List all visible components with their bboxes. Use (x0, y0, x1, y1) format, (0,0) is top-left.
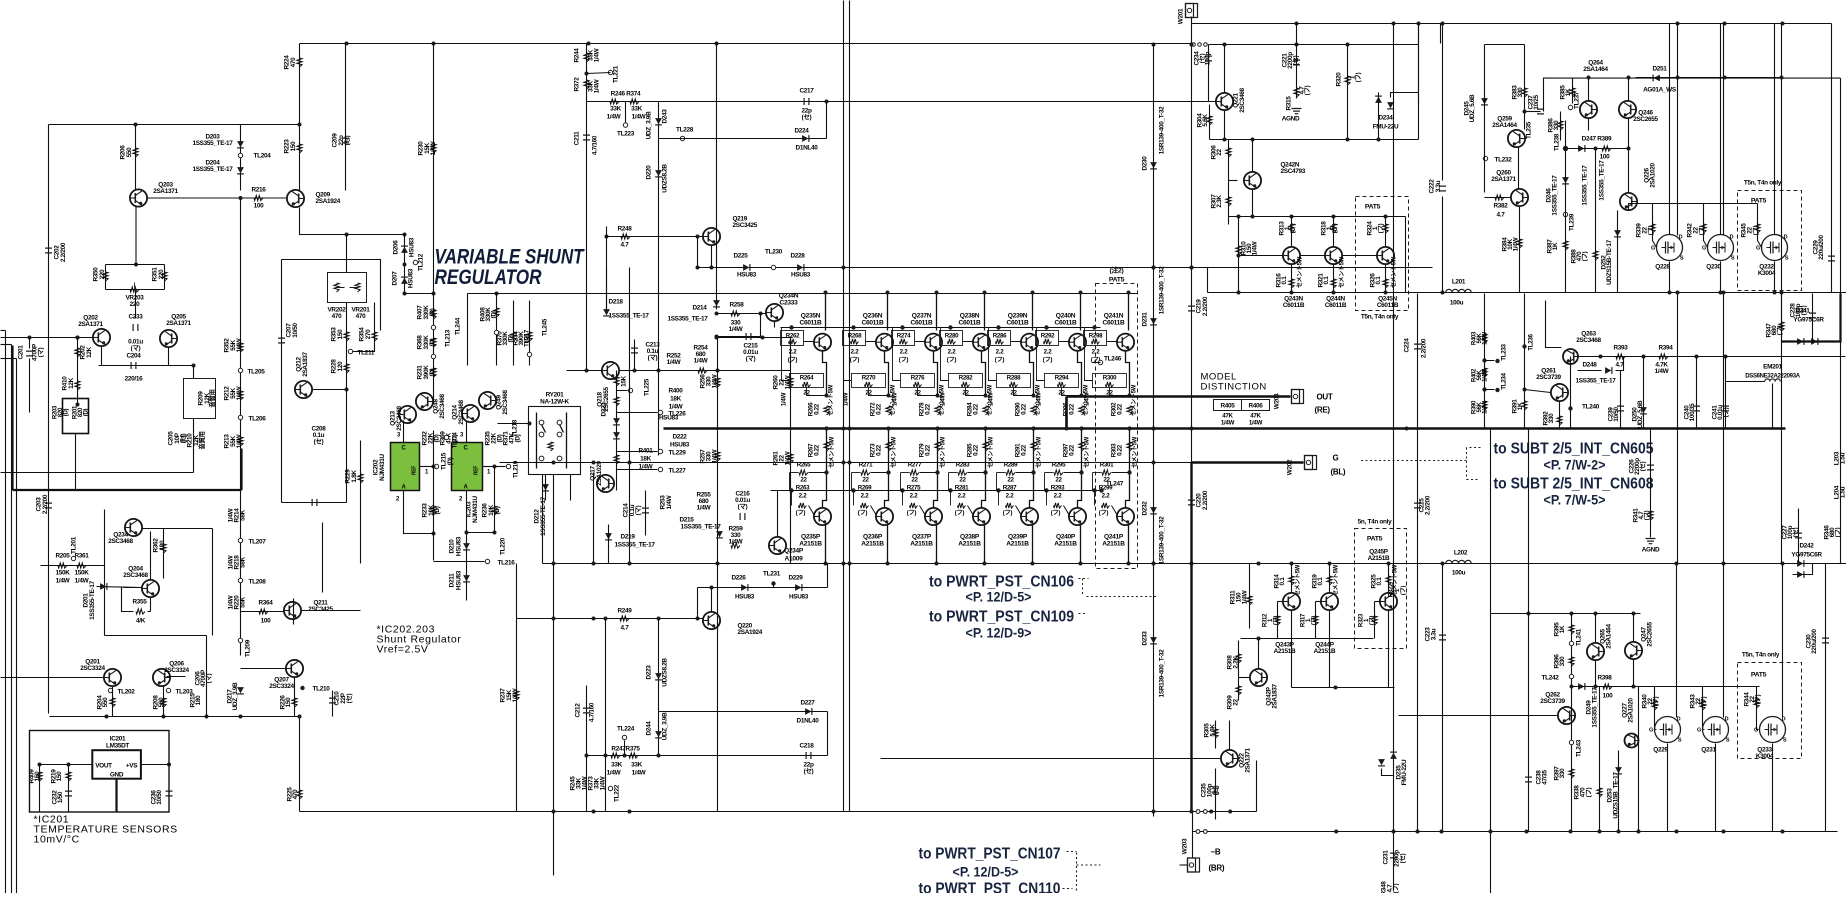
resistor R342z (1701, 224, 1706, 233)
diode D229 (795, 584, 801, 591)
svg-text:D215: D215 (679, 517, 694, 524)
resistor R385 (1570, 88, 1575, 97)
transistor Q205 (160, 330, 177, 347)
resistor R246 (610, 99, 619, 104)
wire v1524 (1524, 45, 1526, 130)
wire rail A corner (1256, 761, 1258, 812)
capacitor C219 (1188, 306, 1195, 311)
svg-text:C218: C218 (799, 743, 814, 750)
wire V x586 (586, 44, 588, 102)
transistor Q240N (1080, 293, 1082, 331)
svg-text:1SS355_TE-17: 1SS355_TE-17 (192, 166, 233, 173)
wire C210 col (332, 691, 334, 717)
svg-text:D232: D232 (1142, 501, 1149, 516)
diode D250z (1640, 407, 1647, 413)
diode D207 (401, 278, 408, 284)
wire H y293 (405, 293, 434, 295)
pin TL241 (1569, 641, 1573, 645)
svg-text:22: 22 (862, 477, 869, 484)
svg-text:D221: D221 (601, 402, 608, 417)
svg-text:D206: D206 (393, 240, 400, 255)
wire c213 col (634, 340, 636, 371)
dashed box PAT5 center (1096, 284, 1138, 569)
svg-text:1SS355_TE-17: 1SS355_TE-17 (615, 542, 656, 549)
wire C217 drop (826, 102, 828, 139)
svg-text:TL213: TL213 (445, 329, 452, 347)
svg-text:2SA1837: 2SA1837 (1272, 683, 1279, 708)
wire R249 row (517, 618, 703, 620)
svg-text:TL234: TL234 (1501, 372, 1508, 389)
mosfet Q233 (1760, 717, 1786, 743)
svg-text:D244: D244 (646, 721, 653, 736)
svg-text:(フ): (フ) (858, 510, 868, 517)
node x135 y124 (134, 123, 138, 127)
wire emit bus (50, 716, 300, 718)
transistor Q260 (1511, 189, 1528, 206)
resistor R316z (1289, 279, 1294, 288)
transistor Q227b (1625, 734, 1639, 748)
svg-text:1/4W: 1/4W (600, 775, 607, 790)
svg-text:(BL): (BL) (1331, 468, 1346, 477)
wire R310 col (1238, 217, 1240, 293)
svg-text:R244: R244 (574, 48, 581, 63)
svg-text:22: 22 (959, 477, 966, 484)
node R290 bus (1032, 427, 1036, 431)
svg-text:TL223: TL223 (617, 131, 635, 138)
wire AGND col (1650, 429, 1652, 538)
wire Q202 base (1, 337, 93, 339)
svg-text:セメント5W: セメント5W (1297, 256, 1304, 288)
wire C208 row (282, 502, 347, 504)
diode pair D241 (1797, 338, 1803, 345)
wire Q242N base (1229, 180, 1238, 182)
svg-text:GND: GND (110, 772, 124, 779)
wire v1831 (1831, 24, 1833, 293)
svg-text:C6011B: C6011B (1054, 320, 1077, 327)
node R302 bus (1128, 427, 1132, 431)
wire TL223 stub (625, 102, 627, 123)
IC202 green box (391, 443, 420, 491)
diode pair D235 (1390, 753, 1397, 759)
wire q265 emit (1595, 661, 1597, 687)
svg-text:1/4W: 1/4W (892, 392, 899, 406)
svg-text:1K: 1K (1565, 88, 1572, 96)
wire q231 s (1715, 744, 1717, 832)
svg-text:TL241: TL241 (1576, 628, 1583, 646)
wire V x240 ladder (240, 198, 242, 461)
svg-text:C6011B: C6011B (1377, 302, 1399, 309)
svg-text:D223: D223 (646, 665, 653, 680)
wire gq229 (1655, 687, 1657, 730)
wire h635 (105, 635, 207, 637)
svg-text:K3004: K3004 (1758, 270, 1776, 277)
wire D251 row (1636, 77, 1782, 79)
resistor R308z (1236, 654, 1241, 663)
resistor R230 (431, 144, 436, 153)
transistor Q245P (1380, 593, 1397, 610)
svg-text:1/4W: 1/4W (607, 114, 622, 121)
wire v1677b (1677, 293, 1679, 564)
transistor Q244P (1321, 593, 1338, 610)
resistor R266 (824, 406, 829, 415)
transistor Q241P (1128, 526, 1130, 564)
svg-text:1SS355-TE-17: 1SS355-TE-17 (89, 580, 96, 619)
svg-text:C6011B: C6011B (861, 320, 884, 327)
transistor Q242P (1250, 669, 1267, 686)
svg-text:セメント5W: セメント5W (829, 436, 836, 468)
nodes x404 (403, 263, 407, 267)
svg-text:OUT: OUT (1317, 393, 1333, 402)
wire v717 upper (717, 338, 719, 429)
svg-text:(マ): (マ) (37, 347, 45, 357)
resistor R362zz (161, 544, 166, 553)
wire Q204 emit (150, 598, 152, 612)
resistor R347zz (1779, 322, 1784, 331)
capacitor C234 (1205, 56, 1212, 61)
wire v1677 (1677, 24, 1679, 236)
svg-text:TL209: TL209 (245, 639, 252, 657)
transistor Q222 (1221, 750, 1238, 767)
dashed box PAT5 mosfet top (1738, 191, 1802, 291)
svg-text:D233: D233 (1142, 631, 1149, 646)
svg-text:セメント5W: セメント5W (1295, 564, 1302, 596)
wire rail43 ext right (1209, 44, 1419, 46)
transistor Q236P (887, 526, 889, 564)
svg-text:D227: D227 (800, 700, 815, 707)
wire R386 col (1560, 112, 1562, 141)
wire Q222 col (1229, 721, 1231, 750)
capacitor C236 (166, 791, 173, 796)
svg-text:音質用: 音質用 (208, 389, 217, 407)
svg-text:33K: 33K (631, 762, 643, 769)
svg-text:0.1: 0.1 (1279, 577, 1286, 586)
resistor R375 (629, 753, 638, 758)
diode D219 (605, 533, 612, 539)
svg-text:W203: W203 (1182, 838, 1189, 854)
resistor R267 (824, 442, 829, 451)
pin TL212 (413, 260, 417, 264)
svg-text:22: 22 (800, 477, 807, 484)
wire V x105 (105, 265, 107, 290)
resistor R324 (1383, 224, 1388, 233)
resistor R397z (1569, 769, 1574, 778)
wire D234 stub (1378, 93, 1380, 140)
svg-text:0.22: 0.22 (814, 403, 821, 415)
resistor R341 (1648, 511, 1653, 520)
diode D204 (237, 167, 244, 173)
wire Q232 src (1774, 262, 1776, 293)
wire q233 d (1782, 564, 1784, 718)
svg-text:D228: D228 (790, 253, 805, 260)
wire V x404 (404, 235, 406, 294)
wire v658 col (658, 619, 660, 756)
svg-text:TL231: TL231 (763, 571, 781, 578)
node x1153 y267 (1152, 266, 1156, 270)
svg-text:1/4W: 1/4W (75, 578, 90, 585)
svg-text:2SA1837: 2SA1837 (302, 351, 309, 376)
wire R248 row (607, 236, 703, 238)
transistor Q237P (936, 526, 938, 564)
svg-text:(マ): (マ) (738, 503, 748, 511)
diode D226 (741, 584, 747, 591)
svg-text:2.2: 2.2 (851, 349, 860, 356)
svg-text:47/35: 47/35 (1542, 770, 1549, 785)
svg-text:Q234P: Q234P (784, 548, 804, 555)
svg-text:<P. 12/D-5>: <P. 12/D-5> (953, 864, 1019, 880)
svg-text:R269: R269 (858, 485, 872, 492)
IC203 green box (452, 443, 483, 491)
svg-text:R286: R286 (993, 333, 1007, 340)
capacitor C202 (45, 248, 52, 253)
dot ladder top (495, 292, 499, 296)
resistor R310 (1236, 246, 1241, 255)
svg-text:470: 470 (290, 57, 297, 68)
wire Q202 emitter (101, 347, 103, 366)
svg-text:47K: 47K (1222, 413, 1233, 420)
capacitor C216 (740, 513, 745, 520)
wire Q246 emit (1628, 119, 1630, 193)
resistor R273 (886, 442, 891, 451)
svg-text:UDZ_3.9B: UDZ_3.9B (232, 682, 239, 710)
pin TL226 (658, 410, 662, 414)
svg-text:D241: D241 (1795, 308, 1810, 315)
pin TL203 (166, 688, 170, 692)
svg-text:2SC3468: 2SC3468 (396, 405, 403, 430)
wire tl216 row (434, 561, 485, 563)
svg-text:1/4W: 1/4W (1249, 420, 1263, 427)
svg-text:2.2: 2.2 (1054, 493, 1063, 500)
svg-text:TL220: TL220 (500, 537, 507, 555)
svg-text:G: G (1702, 246, 1706, 252)
diode D217z (237, 687, 244, 693)
svg-text:2SC3425: 2SC3425 (733, 222, 758, 229)
wire Q206 base (167, 676, 186, 678)
wire thick bus y428 (664, 427, 1786, 429)
resistor R249 (620, 616, 629, 621)
svg-text:1K: 1K (1552, 242, 1559, 250)
svg-text:Q235N: Q235N (801, 313, 821, 320)
svg-text:R268: R268 (848, 333, 862, 340)
capacitor C204 (131, 362, 136, 369)
svg-text:1SS355_TE-17: 1SS355_TE-17 (667, 316, 708, 323)
svg-text:1/4W: 1/4W (1036, 392, 1043, 406)
resistor R229 (358, 474, 363, 483)
resistor R386 (1558, 121, 1563, 130)
svg-text:R264: R264 (800, 375, 814, 382)
svg-text:(フ): (フ) (995, 357, 1005, 364)
wire ic202 top (403, 421, 405, 443)
resistor R224 (297, 58, 302, 67)
wire q261 emit (1559, 402, 1561, 429)
resistor R300 (1093, 374, 1127, 388)
svg-text:33K: 33K (610, 106, 622, 113)
svg-text:G: G (1754, 728, 1758, 734)
wire V x697b (697, 237, 699, 268)
svg-text:(セ): (セ) (1639, 461, 1647, 471)
svg-text:150: 150 (56, 771, 63, 782)
wire R313 col (1291, 217, 1293, 247)
pin TL243 (1569, 740, 1573, 744)
wire q242p col (1258, 639, 1260, 670)
wire Q264 col (1588, 78, 1590, 101)
transistor Q209 (287, 190, 304, 207)
wire Q212 base (313, 389, 347, 391)
svg-text:0.22: 0.22 (973, 444, 980, 456)
svg-text:R246 R374: R246 R374 (611, 91, 641, 98)
resistor R352 (238, 343, 243, 352)
svg-text:(フ): (フ) (899, 357, 909, 364)
svg-text:1/4W: 1/4W (697, 505, 712, 512)
resistor R311z (1247, 596, 1252, 605)
diode pair D242 (1797, 560, 1803, 567)
svg-text:R249: R249 (617, 608, 632, 615)
svg-text:(フ): (フ) (947, 357, 957, 364)
resistor R279 (935, 442, 940, 451)
node R267 bus (825, 427, 829, 431)
wire C228 cap (1812, 294, 1814, 342)
resistor R303 (1127, 442, 1132, 451)
svg-text:0.1: 0.1 (1323, 276, 1330, 285)
svg-text:Q234N: Q234N (779, 293, 799, 300)
transistor Q203 (130, 189, 147, 206)
svg-text:TL204: TL204 (254, 153, 272, 160)
jumper circles railA (1196, 810, 1200, 814)
wire Q228 drain (1669, 24, 1671, 235)
dots rail 462 (552, 461, 556, 465)
svg-text:220/16: 220/16 (125, 376, 143, 383)
wire row370 (567, 370, 602, 372)
svg-text:47K: 47K (1250, 413, 1261, 420)
svg-text:(フ): (フ) (1051, 510, 1061, 517)
wire D226 drop (697, 588, 699, 619)
svg-text:(マ): (マ) (634, 505, 642, 515)
svg-text:D: D (1725, 717, 1729, 723)
svg-text:YG975C6R: YG975C6R (1793, 317, 1824, 324)
svg-text:1SR139-400_T-32: 1SR139-400_T-32 (1159, 106, 1166, 154)
resistor box R203 R201 (63, 399, 89, 434)
svg-text:TL212: TL212 (418, 253, 425, 271)
connector W201 (1186, 4, 1198, 18)
wire d235 link (1382, 769, 1394, 776)
resistor R315 (1294, 88, 1299, 97)
diode D221z (613, 418, 620, 424)
wire R306 col (1228, 140, 1230, 225)
svg-text:150: 150 (285, 697, 292, 708)
svg-text:2SA1371: 2SA1371 (153, 188, 178, 195)
wire R312 stub (1278, 601, 1283, 603)
node x433 y293 (432, 292, 436, 296)
resistor R383 (1522, 88, 1527, 97)
svg-text:TL240: TL240 (1582, 404, 1600, 411)
wire v616 low (616, 429, 618, 491)
svg-text:2SA1464: 2SA1464 (1606, 623, 1613, 648)
node x299 y124 (298, 123, 302, 127)
ground AGND bottom (1646, 539, 1656, 544)
transistor Q234A (125, 519, 142, 536)
resistor R257z (715, 452, 720, 461)
svg-text:<P. 7/W-2>: <P. 7/W-2> (1544, 457, 1606, 473)
svg-text:TL225: TL225 (644, 378, 651, 396)
svg-text:Q238N: Q238N (960, 313, 980, 320)
svg-text:R258: R258 (729, 302, 744, 309)
svg-text:R270: R270 (862, 375, 876, 382)
svg-text:(D): (D) (447, 457, 454, 465)
resistor R272 (886, 406, 891, 415)
node r248 (605, 235, 609, 239)
wire C235 col (1215, 769, 1217, 820)
wire q247 col (1633, 614, 1635, 642)
wire Q230 src (1720, 262, 1722, 293)
svg-text:DISTINCTION: DISTINCTION (1201, 382, 1267, 393)
wire Q259 emit (1518, 148, 1520, 189)
resistor R407 (431, 310, 436, 319)
resistor R237 (514, 691, 519, 700)
svg-text:R216: R216 (251, 187, 266, 194)
transistor Q213 (399, 406, 416, 423)
svg-text:2SC3468: 2SC3468 (502, 389, 509, 414)
svg-text:2SC3324: 2SC3324 (164, 667, 189, 674)
svg-text:10mV/°C: 10mV/°C (34, 834, 80, 846)
wire cap col C240 (1696, 357, 1698, 429)
resistor R231 (431, 368, 436, 377)
svg-text:150: 150 (337, 329, 344, 340)
wire cap col D250 (1643, 357, 1645, 429)
svg-text:1/4W: 1/4W (1252, 240, 1259, 255)
wire V x240 lower (240, 461, 242, 656)
transistor Q237N (936, 293, 938, 331)
wire V x240 diodes (240, 125, 242, 191)
svg-text:2.2/200: 2.2/200 (1202, 296, 1209, 316)
svg-text:0.22: 0.22 (1021, 403, 1028, 415)
svg-text:1/4W: 1/4W (666, 494, 673, 509)
svg-text:4.7/160: 4.7/160 (592, 135, 599, 155)
wire D227 corner (827, 712, 829, 756)
node C217 (825, 100, 829, 104)
wire V x135 (135, 125, 137, 190)
svg-text:58K: 58K (240, 509, 247, 521)
svg-text:R406: R406 (1248, 403, 1263, 410)
wire Q260 emit (1519, 207, 1521, 293)
capacitor C217 (804, 98, 809, 105)
transistor Q221 (1216, 93, 1233, 110)
resistor R287 (996, 488, 1000, 492)
resistor R259 (731, 543, 740, 548)
svg-text:(セ): (セ) (345, 693, 353, 703)
diode D224 (802, 135, 808, 142)
svg-text:R248: R248 (617, 226, 632, 233)
resistor R236 (492, 506, 497, 515)
resistor R353 (344, 332, 349, 341)
svg-text:セメント5W: セメント5W (891, 436, 898, 468)
wire em201 in (1726, 381, 1765, 383)
svg-text:10/50: 10/50 (1613, 407, 1620, 422)
svg-text:TL230: TL230 (765, 249, 783, 256)
varistor VR203 (130, 287, 139, 292)
resistor R299 (1092, 488, 1096, 492)
node Q239P collector (1031, 562, 1035, 566)
svg-text:2SA1464: 2SA1464 (1583, 66, 1608, 73)
svg-text:R294: R294 (1055, 375, 1069, 382)
svg-text:5n, T4n only: 5n, T4n only (1358, 519, 1392, 526)
svg-text:2.2: 2.2 (1044, 349, 1053, 356)
wire c231 col (1393, 832, 1395, 891)
svg-text:TL238: TL238 (1554, 133, 1561, 151)
svg-text:4.7: 4.7 (1497, 212, 1506, 219)
svg-text:330: 330 (1559, 656, 1566, 667)
svg-text:15K: 15K (621, 375, 628, 387)
svg-text:2SA1020: 2SA1020 (1628, 697, 1635, 722)
label TL216 (485, 559, 489, 563)
